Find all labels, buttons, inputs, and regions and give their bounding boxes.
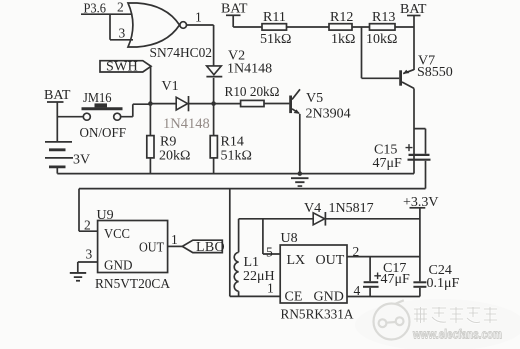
svg-text:20kΩ: 20kΩ — [159, 149, 190, 164]
svg-text:10kΩ: 10kΩ — [366, 32, 397, 47]
wire P3.6 to gate pin 2 — [81, 13, 132, 15]
ground (U9) — [70, 272, 86, 282]
transistor V7 S8550 — [399, 54, 453, 89]
svg-text:2: 2 — [353, 244, 360, 259]
svg-text:1: 1 — [171, 232, 178, 247]
power BAT (top right) — [400, 2, 427, 17]
diode V1 1N4148 — [150, 79, 213, 111]
capacitor C24 0.1uF — [413, 263, 459, 297]
svg-text:OUT: OUT — [316, 253, 345, 268]
wire U8 OUT pin 2 — [347, 244, 420, 259]
svg-text:1: 1 — [195, 10, 202, 25]
wire +3.3V down to V4/OUT rail — [419, 208, 421, 281]
svg-text:V1: V1 — [162, 79, 179, 94]
svg-text:2: 2 — [117, 0, 124, 15]
svg-text:GND: GND — [314, 290, 344, 305]
node junction dot (V5 emitter / ground) — [298, 171, 303, 176]
wire gate output down to V2 — [213, 25, 215, 66]
IC U8 RN5RK331A — [280, 231, 354, 323]
svg-text:3V: 3V — [73, 153, 90, 168]
svg-text:1N4148: 1N4148 — [163, 116, 210, 132]
resistor R14 — [210, 104, 252, 174]
svg-text:4: 4 — [354, 283, 361, 298]
wire SWH to node A — [150, 67, 152, 104]
svg-text:R9: R9 — [160, 135, 176, 150]
wire U8 LX pin 5 — [263, 219, 280, 260]
wire battery negative to rail — [56, 168, 58, 174]
wire BAT to battery — [56, 102, 58, 142]
diode V2 1N4148 — [206, 49, 272, 104]
wire U8 GND pin 4 — [347, 283, 420, 298]
svg-text:V4: V4 — [304, 201, 321, 216]
svg-text:OUT: OUT — [139, 241, 164, 256]
wire R12 to R13 — [352, 26, 370, 28]
label SN74HC02 — [150, 46, 213, 61]
capacitor C15 47uF — [373, 129, 431, 189]
svg-text:R13: R13 — [372, 10, 395, 25]
svg-text:R11: R11 — [263, 10, 286, 25]
wire V5 emitter to ground rail — [299, 114, 301, 174]
svg-text:S8550: S8550 — [417, 65, 453, 80]
wire V7 base — [362, 27, 400, 78]
svg-text:LX: LX — [287, 253, 306, 268]
svg-text:U9: U9 — [97, 208, 114, 223]
IC U9 RN5VT20CA — [79, 189, 171, 292]
svg-text:2: 2 — [84, 218, 91, 233]
wire branch to gate pin 3 — [110, 14, 133, 40]
svg-text:3: 3 — [86, 247, 93, 262]
wire gate output — [187, 24, 214, 26]
pin 1 label (CE) — [267, 281, 274, 296]
battery 3V — [45, 141, 90, 168]
watermark haze — [355, 299, 520, 349]
svg-text:5: 5 — [266, 245, 273, 260]
svg-text:0.1μF: 0.1μF — [427, 276, 460, 291]
ground symbol (main rail) — [291, 177, 309, 187]
wire switch to node A — [121, 104, 151, 117]
wire supply riser to L1/CE loop — [230, 189, 280, 297]
wire ground rail — [57, 173, 414, 175]
power BAT (battery, left) — [44, 88, 71, 103]
node +3.3V — [403, 195, 439, 210]
watermark logo circle — [374, 300, 410, 339]
svg-text:1N5817: 1N5817 — [329, 201, 374, 216]
switch JM16 ON/OFF — [80, 91, 127, 141]
power BAT (top middle) — [221, 2, 248, 17]
svg-text:SN74HC02: SN74HC02 — [150, 46, 213, 61]
net tag SWH — [100, 60, 151, 75]
diode V4 1N5817 — [304, 201, 420, 226]
svg-text:SWH: SWH — [106, 60, 138, 75]
resistor R10 — [214, 85, 290, 107]
wire LX node (V4 anode rail) — [239, 218, 313, 220]
svg-text:U8: U8 — [281, 231, 298, 246]
node P3.6 label — [84, 2, 107, 17]
capacitor C17 47uF — [363, 257, 410, 297]
svg-text:RN5RK331A: RN5RK331A — [281, 308, 355, 323]
resistor R11 — [260, 10, 291, 47]
resistor R13 — [366, 10, 397, 47]
transistor V5 2N3904 — [289, 89, 350, 121]
watermark text — [414, 307, 497, 323]
svg-text:L1: L1 — [244, 255, 260, 270]
pin 1 label — [195, 10, 202, 25]
svg-text:ON/OFF: ON/OFF — [80, 126, 127, 141]
inductor L1 22uH — [234, 219, 274, 297]
svg-text:1kΩ: 1kΩ — [331, 32, 355, 47]
svg-text:RN5VT20CA: RN5VT20CA — [95, 277, 171, 292]
svg-text:R10 20kΩ: R10 20kΩ — [225, 85, 280, 100]
svg-text:51kΩ: 51kΩ — [221, 149, 252, 164]
svg-text:www.elecfans.com: www.elecfans.com — [412, 328, 502, 342]
svg-text:1: 1 — [267, 281, 274, 296]
svg-text:47μF: 47μF — [373, 156, 403, 171]
svg-text:BAT: BAT — [44, 88, 71, 103]
wire U9 OUT pin 1 — [168, 232, 183, 247]
wire R13 to BAT rail — [395, 26, 414, 28]
resistor R12 — [329, 10, 355, 47]
watermark url — [412, 328, 502, 342]
svg-text:2N3904: 2N3904 — [306, 107, 351, 122]
pin 3 label — [119, 26, 126, 41]
resistor R9 — [147, 104, 191, 174]
svg-text:51kΩ: 51kΩ — [260, 32, 291, 47]
net tag LBO — [182, 240, 225, 255]
svg-text:BAT: BAT — [221, 2, 248, 17]
svg-text:V5: V5 — [306, 91, 323, 106]
svg-text:R14: R14 — [221, 135, 244, 150]
wire BAT to V7 emitter — [413, 16, 415, 71]
wire 3.3V distribution (lower horizontal) — [79, 188, 426, 190]
pin 2 label — [117, 0, 124, 15]
wire BAT to R11 — [233, 15, 262, 27]
svg-text:R12: R12 — [330, 10, 353, 25]
wire U9 GND pin 3 — [78, 262, 98, 272]
svg-text:GND: GND — [104, 259, 133, 274]
value label 1N4148 (faded) — [163, 116, 210, 132]
svg-text:LBO: LBO — [196, 240, 225, 255]
svg-text:VCC: VCC — [104, 227, 130, 242]
wire battery to switch — [57, 116, 83, 118]
svg-text:3: 3 — [119, 26, 126, 41]
wire V7 collector down — [413, 88, 415, 173]
NOR gate U1 SN74HC02 — [128, 3, 187, 47]
svg-text:CE: CE — [285, 290, 303, 305]
node A junction dot — [148, 101, 153, 106]
node B junction dot — [211, 101, 216, 106]
wire R11 to R12 — [287, 26, 330, 28]
svg-text:1N4148: 1N4148 — [227, 62, 272, 77]
svg-text:47μF: 47μF — [381, 272, 411, 287]
